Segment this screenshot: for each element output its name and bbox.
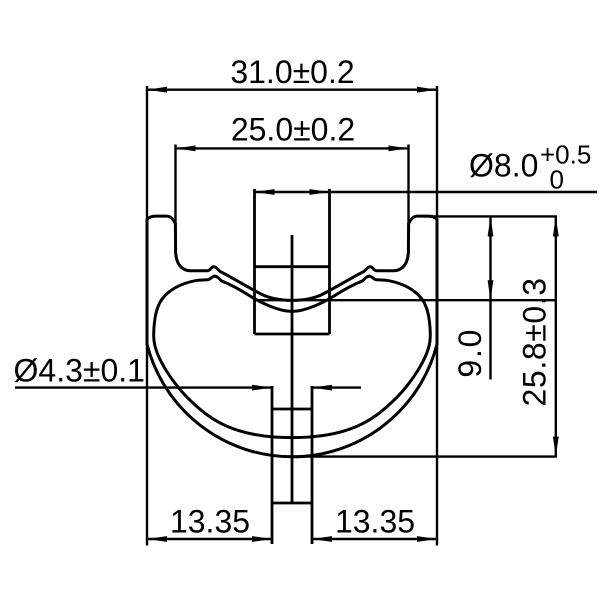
svg-text:25.0±0.2: 25.0±0.2 <box>231 112 355 148</box>
valve hole tick upper <box>255 265 330 268</box>
arrow 9.0 up <box>488 216 494 236</box>
rim inner cavity contour <box>154 276 431 437</box>
arrow dia4.3 left <box>252 385 272 391</box>
rim outer contour <box>147 216 437 457</box>
svg-text:25.8±0.3: 25.8±0.3 <box>517 277 553 406</box>
top reference line (9.0 / 25.8) <box>424 215 557 217</box>
valve hole right edge <box>328 189 331 334</box>
svg-text:Ø8.0: Ø8.0 <box>469 148 538 184</box>
spoke hole right edge <box>311 386 314 544</box>
svg-text:0: 0 <box>550 165 564 195</box>
dimension line 13.35 left <box>147 538 272 540</box>
extension line left (31.0 / 13.35) <box>146 86 148 546</box>
spoke hole left edge <box>271 386 274 544</box>
extension line right (31.0 / 13.35) <box>436 86 438 546</box>
leader stub right dia 4.3 <box>312 386 361 388</box>
extension line right (25.0) <box>407 145 409 225</box>
svg-text:13.35: 13.35 <box>170 504 250 540</box>
valve hole left edge <box>253 189 256 334</box>
arrow 25.8 up <box>553 216 559 236</box>
centerline <box>291 235 294 503</box>
svg-text:9.0: 9.0 <box>452 328 488 378</box>
arrow 31.0 left <box>147 87 167 93</box>
bottom reference line of 25.8 (rim bottom) <box>290 455 557 457</box>
arrow dia8 right <box>310 189 330 195</box>
valve hole bottom <box>255 333 330 336</box>
arrow dia8 left <box>255 189 275 195</box>
leader line dia 4.3 <box>15 386 272 388</box>
extension line left (25.0) <box>174 145 176 225</box>
arrow 25.0 left <box>176 146 196 152</box>
spoke hole tick upper <box>272 408 312 411</box>
arrow 25.8 down <box>553 437 559 457</box>
dimension line 31.0 <box>147 88 437 90</box>
arrow 9.0 down <box>488 280 494 300</box>
svg-text:31.0±0.2: 31.0±0.2 <box>230 54 354 90</box>
arrow 31.0 right <box>417 87 437 93</box>
dimension line 13.35 right <box>312 538 437 540</box>
spoke hole tick lower <box>272 502 312 505</box>
arrow 13.35R right <box>417 536 437 542</box>
arrow 25.0 right <box>389 146 409 152</box>
dimension line 25.8 vertical <box>555 216 557 456</box>
arrow 13.35R left <box>312 536 332 542</box>
dimension line 9.0 vertical <box>489 216 491 379</box>
svg-text:13.35: 13.35 <box>335 504 415 540</box>
arrow dia4.3 right <box>312 385 332 391</box>
dimension line 25.0 <box>176 147 409 149</box>
leader line dia 8.0 <box>255 191 598 193</box>
arrow 13.35L left <box>147 536 167 542</box>
svg-text:Ø4.3±0.1: Ø4.3±0.1 <box>14 353 145 389</box>
bottom reference line of 9.0 (channel bottom) <box>254 299 557 301</box>
arrow 13.35L right <box>252 536 272 542</box>
svg-text:+0.5: +0.5 <box>540 140 591 170</box>
